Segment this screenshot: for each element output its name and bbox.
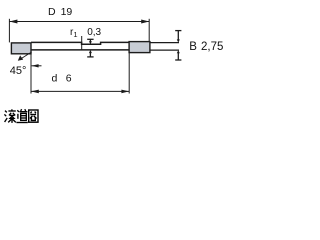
svg-text:19: 19 — [61, 6, 73, 18]
dimension d 6: right extension line — [128, 52, 130, 93]
svg-text:2,75: 2,75 — [201, 41, 223, 53]
dimension D 19: right arrow — [141, 20, 149, 24]
dimension d 6: left extension line — [30, 53, 32, 93]
svg-text:d: d — [52, 73, 58, 85]
dimension D 19: dimension line — [9, 21, 149, 23]
dimension d 6: dimension line — [31, 90, 129, 92]
svg-text:45°: 45° — [10, 65, 27, 77]
washer left section (grey filled rect) — [11, 43, 31, 54]
CJK label: 道 (dao) hand-drawn — [16, 109, 27, 122]
CJK label: 圈 (quan) hand-drawn — [29, 110, 38, 122]
svg-text:D: D — [48, 6, 56, 18]
dimension d 6: left arrow — [31, 90, 39, 94]
svg-text:0,3: 0,3 — [87, 27, 101, 38]
CJK label: 滚 (gun) hand-drawn — [4, 109, 15, 123]
annotation 0,3: upper arrow (points down to web top) — [87, 39, 93, 44]
dimension D 19: left arrow — [9, 20, 17, 24]
annotation 45deg: horizontal arrow pointing left at bore edge — [32, 64, 42, 67]
dimension B: bottom arrow (points up) — [175, 50, 181, 60]
dimension D 19: left extension line — [8, 19, 10, 43]
dimension D 19: right extension line — [148, 19, 150, 42]
wire: web bottom line — [31, 49, 129, 51]
annotation 45deg: diagonal leader with arrow at washer corner — [18, 52, 32, 61]
dimension B: top arrow (points down) — [175, 31, 181, 43]
dimension B: top extension line — [150, 42, 179, 44]
svg-text:6: 6 — [66, 73, 72, 85]
svg-text:B: B — [189, 41, 197, 53]
wire: web top line (with raceway groove step) — [31, 42, 129, 44]
washer right section (grey filled rect) — [129, 42, 150, 53]
annotation r1: vertical leader line — [81, 36, 83, 50]
dimension B: bottom extension line — [150, 49, 179, 51]
annotation 0,3: lower arrow (points up to web bottom) — [87, 50, 93, 57]
dimension d 6: right arrow — [121, 90, 129, 94]
